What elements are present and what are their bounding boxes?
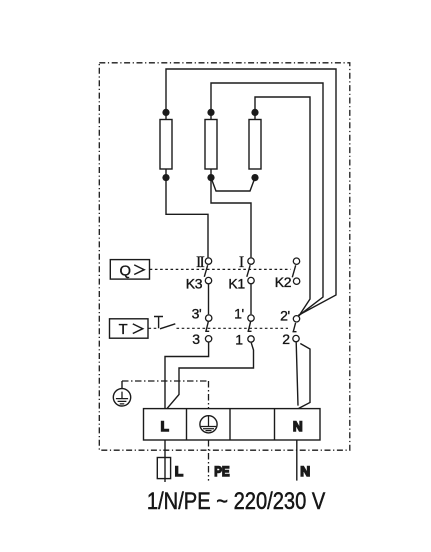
svg-text:II: II <box>196 254 205 271</box>
node dot E1 bottom <box>162 174 169 181</box>
wire link E2 bottom to E3 bottom <box>211 178 255 191</box>
svg-text:1: 1 <box>235 332 243 348</box>
wire K3 to contact 3' <box>208 284 210 314</box>
wire E1 bottom to contact K3 <box>166 169 208 257</box>
thermostat actuator symbol <box>154 317 175 329</box>
heating element E1 body <box>160 120 172 170</box>
node dot E3 top <box>251 109 258 116</box>
fuse F1 <box>157 458 170 479</box>
dotted link T row <box>149 327 289 329</box>
svg-text:K2: K2 <box>275 274 292 290</box>
link contact 2 to terminal N <box>296 342 310 408</box>
wire terminal N down <box>296 440 298 481</box>
wire contact 3 to terminal L <box>165 343 209 409</box>
contact K3 <box>205 258 211 264</box>
svg-text:3': 3' <box>192 306 202 322</box>
contact K2 <box>293 258 299 264</box>
svg-text:T: T <box>119 322 128 338</box>
svg-text:K3: K3 <box>186 275 203 291</box>
contact K1 <box>248 258 254 264</box>
heating element E3 body <box>249 120 261 170</box>
svg-text:K1: K1 <box>228 275 245 291</box>
heating element E2 body <box>205 120 217 170</box>
node dot E2 bottom <box>207 174 214 181</box>
terminal PE earth symbol <box>200 416 217 433</box>
svg-text:N: N <box>300 464 310 479</box>
svg-text:1/N/PE ~ 220/230 V: 1/N/PE ~ 220/230 V <box>147 487 325 514</box>
svg-text:L: L <box>161 419 169 434</box>
terminal block <box>144 409 321 440</box>
svg-text:Q: Q <box>120 263 132 279</box>
svg-text:PE: PE <box>214 463 229 479</box>
svg-text:2': 2' <box>280 308 290 324</box>
wire terminal L down <box>164 440 166 482</box>
svg-text:3: 3 <box>192 331 200 347</box>
svg-text:I: I <box>239 254 244 271</box>
wire contact 1 to terminal L <box>167 343 254 409</box>
svg-text:1': 1' <box>234 306 244 322</box>
chassis earth dash-dot wire <box>122 381 209 409</box>
svg-text:L: L <box>175 464 183 479</box>
wire PE down dash-dot <box>208 440 210 481</box>
node dot E3 bottom <box>251 174 258 181</box>
svg-text:2: 2 <box>282 331 290 347</box>
node dot E2 top <box>207 109 214 116</box>
control box Q> <box>110 260 149 280</box>
wire E2 top to node 2' <box>211 83 323 316</box>
dotted link Q row <box>150 268 291 270</box>
enclosure dash-dot border <box>99 63 349 450</box>
wire E2 bottom to contact K1 <box>211 169 251 257</box>
wire E3 top to node 2' <box>255 97 310 316</box>
chassis ground symbol <box>113 381 130 406</box>
control box T> <box>110 319 149 338</box>
wire E1 top to node 2' <box>166 69 336 315</box>
svg-text:N: N <box>293 419 303 434</box>
node dot E1 top <box>162 109 169 116</box>
wire K1 to contact 1' <box>250 284 252 314</box>
